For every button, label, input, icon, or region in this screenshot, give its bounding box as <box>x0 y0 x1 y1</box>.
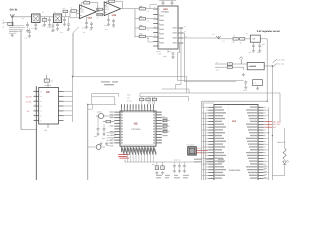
wire J1 to T1 <box>12 16 31 18</box>
U10 left pins <box>153 9 158 46</box>
U4 left pins <box>208 107 214 178</box>
capacitor C46 <box>244 81 247 89</box>
U4 right pin labels <box>246 107 257 179</box>
U5 right pins <box>59 92 64 121</box>
ground input <box>11 34 14 37</box>
U12 power cap C36 <box>90 22 93 29</box>
bus to ADC y81.8 <box>185 81 236 83</box>
U5 bottom pin <box>44 124 48 132</box>
wire vocm <box>178 43 180 81</box>
svg-text:VN: VN <box>184 31 186 33</box>
bus to ADC y80.6 <box>178 80 244 82</box>
svg-text:U5: U5 <box>46 91 50 94</box>
input resistor R35 <box>97 13 104 15</box>
wire xtal to U3 a <box>106 115 114 117</box>
wire xtal step 2 <box>92 93 115 104</box>
bus C y101.2 <box>202 100 267 102</box>
U9 cap C43 <box>252 42 255 52</box>
svg-text:C14: C14 <box>105 29 108 31</box>
resistor R30 <box>8 22 13 25</box>
op-amp U13 <box>104 2 120 16</box>
U13 power cap C38 <box>112 19 115 27</box>
wire R42 to U9 <box>245 38 251 40</box>
svg-text:A2 IN0: A2 IN0 <box>26 95 32 98</box>
svg-text:U3: U3 <box>134 122 138 126</box>
input lower parts <box>25 28 32 40</box>
resistor R29 above T2 wire <box>62 8 67 17</box>
label U8 <box>186 144 194 147</box>
LM4040 in labels <box>216 61 219 72</box>
label XTAL red <box>197 147 201 150</box>
label SDA red <box>273 120 282 123</box>
ground T2 <box>56 27 59 30</box>
wire U11 out <box>264 66 272 107</box>
label R33 <box>84 0 87 2</box>
wire mux bus up <box>72 77 74 123</box>
mid network value labels <box>147 10 150 40</box>
wire U12 input stub <box>76 14 79 17</box>
label SCL red <box>273 123 281 126</box>
feedback resistor R33 <box>82 1 98 11</box>
wire U9 out <box>260 39 267 101</box>
label U4 partnum <box>229 169 242 172</box>
IC U11 LM4040 <box>247 62 264 69</box>
connector P1 circle <box>88 145 105 150</box>
svg-text:SIG IN: SIG IN <box>10 9 18 12</box>
svg-text:I2C SDA: I2C SDA <box>278 58 286 61</box>
wire crystal top <box>88 103 116 105</box>
label C37 <box>104 24 116 29</box>
connector J1 antenna symbol <box>10 14 14 26</box>
wire T1 to T2 <box>40 16 54 18</box>
U5 top pin <box>44 83 52 87</box>
junction b <box>72 76 73 77</box>
ground T1 <box>34 27 37 30</box>
wire A y76.5 <box>73 76 186 78</box>
svg-text:U8 16MHz: U8 16MHz <box>186 144 194 147</box>
svg-text:R 49.9: R 49.9 <box>48 26 53 29</box>
capacitor C21 <box>96 116 99 136</box>
input extra row <box>3 19 8 24</box>
label C32 <box>42 25 53 30</box>
U10 top cap C40 <box>162 0 165 6</box>
label THS4521 <box>161 11 170 14</box>
junction right bus a <box>268 132 269 133</box>
bus B left drop <box>139 93 141 97</box>
resistor R41 <box>233 35 238 41</box>
between U3-U4 labels <box>194 159 224 163</box>
U3 left pin labels <box>110 112 114 144</box>
filter box FB1 <box>253 80 263 86</box>
label U5 <box>46 91 50 94</box>
svg-text:THS4521: THS4521 <box>161 11 170 14</box>
IC U8 body <box>188 147 196 155</box>
junction right bus b <box>272 135 273 136</box>
resistor R42 <box>240 38 245 45</box>
label LPC1114 <box>132 128 142 131</box>
capacitor C32 <box>48 17 51 23</box>
U13 power cap C37 <box>107 14 110 26</box>
svg-text:OUT: OUT <box>262 44 265 46</box>
U9 cap C44 <box>258 42 261 52</box>
svg-text:U4: U4 <box>232 120 236 123</box>
U3 top pins <box>122 104 154 111</box>
U3 right pins <box>156 112 162 143</box>
capacitor C31 <box>34 23 37 27</box>
IC U9 LP2985 <box>250 35 260 42</box>
node bus x135 <box>134 9 136 37</box>
wire U10 pd <box>178 37 188 39</box>
wire left vertical x21 <box>20 30 22 130</box>
label U4 <box>232 120 236 123</box>
svg-text:PD: PD <box>185 36 187 38</box>
opamp below extra text <box>83 29 108 34</box>
bottom labels <box>152 159 180 166</box>
capacitor row bottom <box>173 162 186 173</box>
svg-text:1611: 1611 <box>80 11 84 14</box>
U3 bottom slanted labels <box>122 147 156 154</box>
svg-text:1.0k: 1.0k <box>147 30 150 32</box>
junction c <box>87 104 88 105</box>
resistor R21 <box>103 120 114 122</box>
label U3 <box>134 122 138 126</box>
capacitor C29 <box>51 23 54 32</box>
U10 interior pin names right <box>173 27 177 43</box>
U10 right net labels <box>184 26 187 38</box>
LED D1 <box>283 160 289 164</box>
input dense row 3 <box>2 25 22 31</box>
svg-text:LM4040: LM4040 <box>249 65 257 68</box>
resistor R32 <box>70 10 79 13</box>
label U13 <box>112 14 117 17</box>
op-amp U12 <box>80 5 97 19</box>
U12 power cap C35 <box>85 17 88 29</box>
svg-text:1k: 1k <box>71 7 73 10</box>
U3 left pins <box>114 112 120 143</box>
wire x280 down <box>279 93 281 122</box>
IC U5 body <box>39 88 59 125</box>
capacitor C33 <box>56 23 59 28</box>
IC U10 body <box>158 6 178 49</box>
power arrow VIN <box>213 33 221 39</box>
label C29 <box>51 29 68 34</box>
input RC network rows <box>9 22 29 35</box>
U3 bottom pin drops <box>127 152 153 162</box>
U5 left pin tiny text <box>34 90 36 121</box>
svg-text:U12: U12 <box>88 16 93 19</box>
U10 bottom stub <box>158 49 169 58</box>
wire left vertical x36 <box>35 86 37 180</box>
resistor R38 <box>135 15 153 20</box>
U3 right wires <box>162 118 168 132</box>
svg-text:ATMEGA328: ATMEGA328 <box>229 169 242 172</box>
svg-text:49.9: 49.9 <box>62 8 65 10</box>
crystal Y1 <box>96 111 106 119</box>
wire VIN to U9 <box>188 37 233 40</box>
label U5 pin A1 red <box>26 100 32 103</box>
junction bus C <box>267 101 268 102</box>
U3 right part wires <box>167 121 170 132</box>
U3 pin numbers bottom <box>121 147 154 149</box>
U4 left bus b <box>202 110 204 180</box>
IC U4 body <box>214 105 258 182</box>
bus E y96.6 <box>140 96 189 98</box>
U4 outside pin numbers right <box>264 107 266 179</box>
U10 feedback wires <box>148 5 157 42</box>
U4 left bus a <box>201 107 203 180</box>
U5 pin labels inside <box>40 90 42 122</box>
U3 interior pin numbers right <box>153 112 155 144</box>
svg-text:750: 750 <box>84 0 87 2</box>
wire R44 to U11 <box>232 64 247 70</box>
resistor R31 <box>42 17 47 23</box>
bus B y93 <box>140 92 280 94</box>
ground ref <box>242 73 245 76</box>
svg-text:A1 IN1: A1 IN1 <box>26 100 32 103</box>
capacitor C34 <box>63 17 66 26</box>
bottom right wire stubs <box>264 166 267 177</box>
T boxes below text <box>31 28 55 31</box>
U3 top net labels <box>127 93 132 102</box>
svg-text:RESET: RESET <box>109 137 116 140</box>
bottom mid extra labels <box>156 175 189 179</box>
wire U12 out to U13 <box>96 9 99 11</box>
capacitor C22 <box>102 124 105 136</box>
svg-text:PJS: PJS <box>31 28 34 30</box>
U3 interior pin numbers left <box>121 112 123 144</box>
wire ref in b <box>215 66 227 68</box>
wire left corner <box>21 129 36 131</box>
U4 right bus links <box>264 110 269 178</box>
red bus PIO wires <box>118 155 129 159</box>
resistor R20 above U5 <box>44 75 53 83</box>
red wire SDA <box>264 121 272 123</box>
filter T2 <box>54 14 62 23</box>
bus E drop <box>188 97 190 102</box>
U3 bottom pins <box>122 146 154 152</box>
U5 left pins <box>34 92 39 121</box>
input resistor R34 <box>97 8 104 10</box>
svg-text:A0: A0 <box>27 110 29 113</box>
resistor R39 <box>135 24 153 29</box>
bus C left leg <box>201 101 203 107</box>
reg resistor labels <box>232 32 248 43</box>
wire xtal to U3 b <box>88 104 93 109</box>
filter T1 <box>32 14 41 23</box>
U10 right pins <box>178 28 183 43</box>
wire to x73 drop <box>73 27 79 33</box>
red wire U8 to U4 <box>196 150 208 152</box>
svg-text:LPC1114: LPC1114 <box>132 128 142 131</box>
bus H y162 <box>125 161 202 163</box>
resistor R37 <box>135 5 153 10</box>
U10 top cap C41 <box>159 0 176 6</box>
LED D1 wire bottom <box>272 164 284 175</box>
resistor R40 <box>135 33 153 38</box>
U4 right bus a <box>267 107 269 180</box>
svg-text:SWCLK: SWCLK <box>109 134 116 137</box>
svg-text:1.0k: 1.0k <box>147 20 150 22</box>
wire U13 out <box>121 8 135 10</box>
wire T2 to U12 input <box>62 11 80 18</box>
bus H left leg <box>124 159 126 162</box>
U4 right pins <box>258 107 264 178</box>
wire A drop <box>185 77 187 94</box>
wire crystal vertical x87.8 <box>87 104 89 180</box>
svg-text:3.3V regulator circuit: 3.3V regulator circuit <box>257 30 280 33</box>
wire ref in a <box>215 63 227 65</box>
bus steps to U3 <box>175 81 181 89</box>
I2C label SCL <box>273 63 285 67</box>
svg-text:I2C_SDA: I2C_SDA <box>273 120 282 123</box>
I2C label SDA <box>273 58 286 62</box>
svg-text:C12: C12 <box>83 32 86 34</box>
U4 left bus links <box>202 107 209 175</box>
U4 inner col divider <box>228 106 230 179</box>
label C35 <box>82 27 92 32</box>
label INT red <box>273 126 277 129</box>
U3 right wire labels <box>162 118 167 136</box>
resistor R45 <box>227 66 232 68</box>
label R32 <box>71 7 73 10</box>
U10 bottom parts <box>171 53 174 59</box>
svg-text:U10: U10 <box>163 8 168 11</box>
label U12 <box>88 16 93 19</box>
svg-text:1.0k: 1.0k <box>147 38 150 40</box>
junction ref out <box>272 65 273 66</box>
U10 interior pin names <box>159 15 164 43</box>
junction a <box>180 27 181 28</box>
svg-text:1611: 1611 <box>105 8 109 11</box>
ground T1-T2 mid <box>43 23 51 26</box>
resistor row RN1 <box>155 162 164 174</box>
U3 right labels <box>162 115 165 129</box>
LED D1 wire top <box>284 128 286 148</box>
mid network labels <box>140 5 143 36</box>
resistor R50 <box>283 148 286 160</box>
feedback resistor R36 <box>106 0 122 9</box>
svg-text:I2C SCL: I2C SCL <box>278 63 285 66</box>
label ADC cluster <box>243 89 247 92</box>
svg-text:I2C_SCL: I2C_SCL <box>273 123 281 126</box>
wire xtal step 1 <box>92 93 119 96</box>
U3 top decoupling <box>140 96 157 104</box>
U5 right wires to bus <box>64 92 73 116</box>
U10 below labels <box>156 50 171 53</box>
U3 pin numbers top <box>121 108 154 110</box>
wire R41-R42 <box>238 38 239 40</box>
red wire SCL <box>264 123 272 125</box>
reg area extra <box>222 40 265 45</box>
bus B segment y89 <box>162 89 189 93</box>
svg-text:C 1u: C 1u <box>222 40 225 42</box>
input extra text <box>22 11 56 20</box>
wire mid vertical x73 <box>72 33 74 77</box>
input title label <box>10 9 18 12</box>
capacitor C28 <box>67 17 70 31</box>
label 3.3V regulator circuit <box>257 30 280 33</box>
ground FB1 <box>256 86 259 90</box>
ground crystal <box>99 142 102 145</box>
U10 pin number text <box>154 7 156 37</box>
svg-text:U13: U13 <box>112 14 117 17</box>
net label ticks <box>107 133 109 146</box>
ground crystal 2 <box>105 142 108 145</box>
wire U10 outP down <box>178 28 181 81</box>
label U5 pin A2 red <box>26 95 32 98</box>
svg-text:1.0k: 1.0k <box>147 10 150 12</box>
label C21 <box>94 135 105 140</box>
ground input 2 <box>26 29 29 32</box>
power arrow ref <box>239 57 243 64</box>
U3 right small parts <box>163 119 167 132</box>
input junction <box>12 16 13 17</box>
wire U10 outN down <box>178 33 185 82</box>
U4 outside pin numbers left <box>206 107 208 179</box>
net label stack <box>109 131 116 147</box>
opamp branch text <box>97 5 99 20</box>
net labels above U3 <box>101 81 118 85</box>
label C43 <box>249 51 260 54</box>
resistor R44 <box>227 63 232 65</box>
U4 left bus c <box>204 113 206 180</box>
label U10 <box>163 8 168 11</box>
U4 right bus b <box>271 107 273 180</box>
label Y2on LED <box>277 141 286 144</box>
U4 left pin labels <box>215 107 226 179</box>
IC U3 body <box>120 111 156 146</box>
red wire INT <box>264 126 272 128</box>
U10 pin numbers <box>159 8 160 48</box>
svg-text:VP: VP <box>184 26 186 28</box>
U4 top-left wires <box>202 101 214 110</box>
svg-text:1nF: 1nF <box>42 25 45 28</box>
label U5 pin A0 red <box>27 110 29 113</box>
